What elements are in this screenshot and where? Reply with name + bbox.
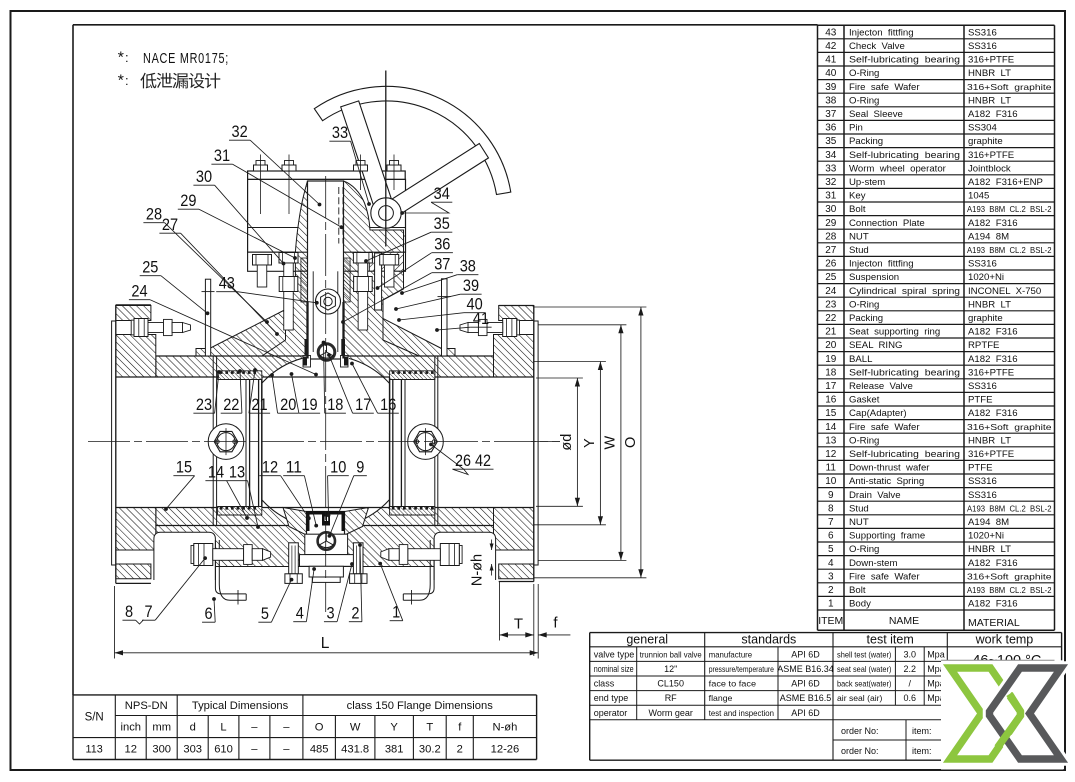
svg-text:BALL: BALL bbox=[849, 354, 873, 365]
svg-text:inch: inch bbox=[120, 722, 141, 734]
svg-text:30.2: 30.2 bbox=[419, 744, 441, 756]
svg-text:API 6D: API 6D bbox=[791, 679, 820, 689]
svg-text:316+PTFE: 316+PTFE bbox=[968, 55, 1014, 66]
drain boss shoulder wedge right bbox=[345, 508, 369, 535]
svg-text:21: 21 bbox=[251, 396, 267, 414]
svg-text:standards: standards bbox=[741, 632, 796, 646]
drain plate bbox=[300, 555, 355, 567]
svg-text:32: 32 bbox=[232, 123, 248, 141]
drain boss pocket bbox=[307, 512, 345, 535]
svg-text:HNBR LT: HNBR LT bbox=[968, 299, 1011, 310]
svg-text:ASME B16.34: ASME B16.34 bbox=[777, 664, 834, 674]
chinese note text bbox=[140, 73, 156, 89]
bore bottom line bbox=[116, 507, 534, 509]
svg-text:Packing: Packing bbox=[849, 136, 883, 147]
svg-text:MATERIAL: MATERIAL bbox=[968, 617, 1020, 629]
centerline extension right bbox=[531, 441, 560, 443]
svg-text:14: 14 bbox=[208, 464, 224, 482]
bell base through band bbox=[295, 252, 360, 271]
svg-text::: : bbox=[125, 73, 129, 88]
flange bolt bbox=[191, 545, 194, 563]
svg-text:42: 42 bbox=[825, 41, 837, 52]
svg-text:SS316: SS316 bbox=[968, 476, 997, 487]
svg-text:6: 6 bbox=[828, 531, 834, 542]
horizontal centerline bbox=[88, 441, 560, 443]
svg-text:23: 23 bbox=[196, 396, 212, 414]
svg-text:18: 18 bbox=[825, 367, 837, 378]
svg-text:7: 7 bbox=[828, 517, 834, 528]
svg-text:14: 14 bbox=[825, 422, 837, 433]
svg-text:O-Ring: O-Ring bbox=[849, 68, 879, 79]
logo green over-cross detail bbox=[998, 694, 1021, 748]
svg-text:Self-lubricating bearing: Self-lubricating bearing bbox=[849, 150, 960, 161]
bonnet neck left bbox=[262, 271, 308, 356]
svg-text:25: 25 bbox=[825, 272, 837, 283]
svg-text:pressure/temperature: pressure/temperature bbox=[709, 664, 775, 674]
handwheel rim of worm gear operator bbox=[314, 86, 511, 194]
svg-text:Bolt: Bolt bbox=[849, 204, 866, 215]
drain valve 9 circle bbox=[318, 532, 335, 549]
svg-text:Stud: Stud bbox=[849, 245, 869, 256]
svg-text:graphite: graphite bbox=[968, 136, 1003, 147]
hub circle of worm wheel bbox=[371, 198, 401, 228]
svg-text:SS316: SS316 bbox=[968, 27, 997, 38]
svg-text:Seal Sleeve: Seal Sleeve bbox=[849, 109, 903, 120]
svg-text:Pin: Pin bbox=[849, 123, 863, 134]
svg-text:37: 37 bbox=[434, 256, 450, 274]
right upper seat pocket serrations bbox=[390, 371, 435, 380]
svg-text:Suspension: Suspension bbox=[849, 272, 899, 283]
flange bolt bbox=[459, 545, 462, 563]
svg-text:A194 8M: A194 8M bbox=[968, 517, 1009, 528]
svg-text:26 42: 26 42 bbox=[455, 452, 491, 470]
svg-text:Fire safe Wafer: Fire safe Wafer bbox=[849, 422, 920, 433]
svg-text:SS316: SS316 bbox=[968, 41, 997, 52]
svg-text:8: 8 bbox=[125, 603, 133, 621]
svg-text:item:: item: bbox=[912, 726, 932, 736]
svg-text:Up-stem: Up-stem bbox=[849, 177, 885, 188]
pin 36 bbox=[375, 253, 382, 310]
drain boss shoulder wedge left bbox=[283, 508, 307, 535]
svg-text:N-øh: N-øh bbox=[470, 554, 486, 586]
svg-text:W: W bbox=[350, 722, 361, 734]
svg-text:12: 12 bbox=[262, 459, 278, 477]
svg-text:API 6D: API 6D bbox=[791, 649, 820, 659]
svg-text:2: 2 bbox=[351, 605, 359, 623]
plate bolts on gear housing top bbox=[254, 165, 268, 171]
svg-text:36: 36 bbox=[825, 123, 837, 134]
body upper wall section bbox=[156, 356, 494, 377]
injection fitting 43 circle bbox=[316, 289, 341, 314]
svg-text:31: 31 bbox=[214, 147, 230, 165]
svg-text:HNBR LT: HNBR LT bbox=[968, 68, 1011, 79]
svg-text:A194 8M: A194 8M bbox=[968, 231, 1009, 242]
svg-text:9: 9 bbox=[356, 459, 364, 477]
svg-text:A182 F316+ENP: A182 F316+ENP bbox=[968, 177, 1043, 188]
svg-text:d: d bbox=[190, 722, 196, 734]
svg-text:–: – bbox=[251, 722, 258, 734]
svg-text:29: 29 bbox=[825, 218, 837, 229]
logo green chevron bbox=[950, 668, 1021, 759]
svg-text:SS304: SS304 bbox=[968, 123, 997, 134]
svg-text:Release Valve: Release Valve bbox=[849, 381, 913, 392]
svg-text:25: 25 bbox=[142, 259, 158, 277]
svg-text:18: 18 bbox=[327, 396, 343, 414]
dimension N-oh bbox=[491, 540, 493, 551]
svg-text:A182 F316: A182 F316 bbox=[968, 354, 1018, 365]
svg-text:operator: operator bbox=[594, 708, 628, 718]
svg-text:A193 B8M CL.2 BSL-2: A193 B8M CL.2 BSL-2 bbox=[967, 504, 1052, 513]
svg-text:Key: Key bbox=[849, 191, 866, 202]
svg-text:17: 17 bbox=[355, 396, 371, 414]
svg-text:19: 19 bbox=[825, 354, 837, 365]
svg-text:face to face: face to face bbox=[709, 679, 757, 689]
handwheel spoke lower-right bbox=[392, 144, 489, 214]
svg-text:41: 41 bbox=[473, 310, 489, 328]
svg-text:RF: RF bbox=[665, 693, 677, 703]
svg-text:Injecton fittfing: Injecton fittfing bbox=[849, 27, 914, 38]
svg-text:RPTFE: RPTFE bbox=[968, 340, 999, 351]
svg-text:SS316: SS316 bbox=[968, 259, 997, 270]
bore top line bbox=[116, 376, 534, 378]
suspension plate left (25) bbox=[205, 279, 210, 356]
svg-text:ASME B16.5: ASME B16.5 bbox=[780, 693, 832, 703]
left flange lower blocks bbox=[116, 508, 156, 551]
svg-text:Self-lubricating bearing: Self-lubricating bearing bbox=[849, 55, 960, 66]
svg-text:12": 12" bbox=[664, 664, 677, 674]
svg-text:316+Soft graphite: 316+Soft graphite bbox=[967, 423, 1052, 432]
svg-text:Seat supporting ring: Seat supporting ring bbox=[849, 327, 940, 338]
svg-text:Check Valve: Check Valve bbox=[849, 41, 905, 52]
bonnet neck right bbox=[344, 271, 420, 356]
logo gray chevron bbox=[990, 668, 1062, 759]
svg-text:35: 35 bbox=[825, 136, 837, 147]
svg-text:O-Ring: O-Ring bbox=[849, 95, 879, 106]
svg-text:A193 B8M CL.2 BSL-2: A193 B8M CL.2 BSL-2 bbox=[967, 205, 1052, 214]
svg-text:NAME: NAME bbox=[889, 615, 919, 627]
supporting frame strap right bbox=[403, 540, 434, 594]
svg-text:T: T bbox=[514, 616, 523, 633]
svg-text:Worm wheel operator: Worm wheel operator bbox=[849, 163, 947, 174]
svg-text:ød: ød bbox=[559, 434, 575, 451]
svg-text:API 6D: API 6D bbox=[791, 708, 820, 718]
svg-text:37: 37 bbox=[825, 109, 837, 120]
svg-text:381: 381 bbox=[385, 744, 404, 756]
connection plate on housing top bbox=[248, 171, 406, 179]
svg-text:22: 22 bbox=[223, 396, 239, 414]
stem key dashed lines bbox=[338, 187, 340, 244]
right seat ring lines bbox=[389, 377, 391, 508]
ball white region bbox=[262, 355, 390, 528]
svg-text:W: W bbox=[603, 435, 619, 449]
worm shaft hidden line bbox=[390, 235, 406, 237]
svg-text:Down-stem: Down-stem bbox=[849, 558, 898, 569]
svg-text:Packing: Packing bbox=[849, 313, 883, 324]
svg-text:SS316: SS316 bbox=[968, 490, 997, 501]
left flange face and raised face lip bbox=[112, 321, 116, 565]
svg-text:34: 34 bbox=[825, 150, 837, 161]
ball surface arcs bbox=[262, 358, 303, 383]
bonnet skirt right bbox=[366, 310, 442, 357]
svg-text:4: 4 bbox=[828, 558, 834, 569]
svg-text:30: 30 bbox=[825, 204, 837, 215]
svg-text:13: 13 bbox=[825, 435, 837, 446]
svg-text:24: 24 bbox=[131, 283, 147, 301]
svg-text:485: 485 bbox=[310, 744, 329, 756]
svg-text:1: 1 bbox=[828, 599, 834, 610]
svg-text:–: – bbox=[251, 744, 258, 756]
svg-text:11: 11 bbox=[286, 459, 302, 477]
vertical centerline bbox=[325, 176, 327, 612]
svg-text:19: 19 bbox=[301, 396, 317, 414]
supporting frame plate left (6) bbox=[154, 532, 216, 580]
svg-text:item:: item: bbox=[912, 746, 932, 756]
svg-text:5: 5 bbox=[828, 544, 834, 555]
inner drawing frame bbox=[73, 24, 818, 26]
svg-text:graphite: graphite bbox=[968, 313, 1003, 324]
left seat ring lines bbox=[245, 377, 247, 508]
svg-text:300: 300 bbox=[152, 744, 171, 756]
svg-text:manufacture: manufacture bbox=[709, 649, 753, 659]
band hatched right part bbox=[369, 252, 403, 271]
svg-text:13: 13 bbox=[229, 464, 245, 482]
svg-text:HNBR LT: HNBR LT bbox=[968, 544, 1011, 555]
svg-text:Injecton fittfing: Injecton fittfing bbox=[849, 259, 914, 270]
svg-text:Supporting frame: Supporting frame bbox=[849, 531, 925, 542]
connection band under housing bbox=[248, 252, 406, 271]
svg-text:16: 16 bbox=[825, 395, 837, 406]
svg-text:NPS-DN: NPS-DN bbox=[125, 700, 168, 712]
svg-text:23: 23 bbox=[825, 299, 837, 310]
dimension W bbox=[538, 324, 626, 326]
svg-text:22: 22 bbox=[825, 313, 837, 324]
svg-text:0.6: 0.6 bbox=[904, 693, 917, 703]
svg-text:3: 3 bbox=[326, 605, 334, 623]
flange bolt bbox=[517, 320, 520, 335]
svg-text:610: 610 bbox=[214, 744, 233, 756]
svg-text:40: 40 bbox=[825, 68, 837, 79]
svg-text:work temp: work temp bbox=[975, 632, 1034, 646]
svg-text:Stud: Stud bbox=[849, 503, 869, 514]
svg-text:303: 303 bbox=[183, 744, 202, 756]
svg-text:28: 28 bbox=[825, 231, 837, 242]
svg-text:10: 10 bbox=[825, 476, 837, 487]
bonnet bell left section bbox=[295, 181, 307, 252]
supporting frame strap left bbox=[215, 540, 246, 594]
svg-text:O-Ring: O-Ring bbox=[849, 435, 879, 446]
svg-text:41: 41 bbox=[825, 55, 837, 66]
housing internal split line bbox=[248, 227, 406, 229]
svg-text:class 150 Flange Dimensions: class 150 Flange Dimensions bbox=[347, 700, 494, 712]
parts list table (BOM) bbox=[817, 25, 819, 630]
svg-text:9: 9 bbox=[828, 490, 834, 501]
bolt 30 left bbox=[253, 255, 272, 266]
svg-text:SS316: SS316 bbox=[968, 381, 997, 392]
bolt right mirror bbox=[380, 255, 399, 266]
svg-text:Drain Valve: Drain Valve bbox=[849, 490, 901, 501]
svg-text:4: 4 bbox=[296, 605, 304, 623]
svg-text:CL150: CL150 bbox=[657, 679, 684, 689]
svg-text:mm: mm bbox=[152, 722, 171, 734]
svg-text:Worm gear: Worm gear bbox=[649, 708, 693, 718]
dimension ød bbox=[536, 377, 583, 379]
svg-text:Body: Body bbox=[849, 599, 871, 610]
svg-text:Cylindrical spiral spring: Cylindrical spiral spring bbox=[849, 286, 960, 297]
stem gland bore lines bbox=[312, 271, 314, 352]
svg-text:A182 F316: A182 F316 bbox=[968, 408, 1018, 419]
svg-text:O: O bbox=[315, 722, 324, 734]
svg-text:Anti-static Spring: Anti-static Spring bbox=[849, 476, 924, 487]
svg-text:24: 24 bbox=[825, 286, 837, 297]
svg-text:21: 21 bbox=[825, 327, 837, 338]
svg-text:31: 31 bbox=[825, 191, 837, 202]
svg-text:test and inspection: test and inspection bbox=[709, 708, 775, 718]
svg-text:38: 38 bbox=[825, 95, 837, 106]
title block info table bbox=[590, 632, 1062, 634]
svg-text:PTFE: PTFE bbox=[968, 395, 993, 406]
right flange face and raised face lip bbox=[534, 321, 538, 565]
gear housing box bbox=[248, 179, 406, 252]
down-stem cap steps bbox=[309, 566, 343, 577]
svg-text:431.8: 431.8 bbox=[341, 744, 369, 756]
svg-text:20: 20 bbox=[280, 396, 296, 414]
svg-text:class: class bbox=[594, 679, 615, 689]
svg-text:6: 6 bbox=[205, 605, 213, 623]
release valve 17 circle bbox=[318, 344, 335, 361]
packing strips beside stem bbox=[301, 258, 308, 302]
svg-text:113: 113 bbox=[86, 744, 103, 756]
logo white box bbox=[941, 660, 1064, 769]
svg-text:A182 F316: A182 F316 bbox=[968, 218, 1018, 229]
body outer top line bbox=[156, 355, 494, 357]
svg-text:Self-lubricating bearing: Self-lubricating bearing bbox=[849, 367, 960, 378]
svg-text:30: 30 bbox=[196, 168, 212, 186]
right closure joint lines bbox=[434, 356, 436, 526]
svg-text:PTFE: PTFE bbox=[968, 463, 993, 474]
svg-text:seat seal (water): seat seal (water) bbox=[837, 664, 892, 674]
handwheel spoke upper-left bbox=[341, 101, 392, 206]
svg-text:Y: Y bbox=[582, 438, 598, 448]
supporting frame plate right bbox=[434, 532, 496, 580]
svg-text:2.2: 2.2 bbox=[904, 664, 917, 674]
svg-text:27: 27 bbox=[825, 245, 837, 256]
svg-text:Fire safe Wafer: Fire safe Wafer bbox=[849, 571, 920, 582]
svg-text:HNBR LT: HNBR LT bbox=[968, 435, 1011, 446]
svg-text:3.0: 3.0 bbox=[904, 649, 917, 659]
svg-text:air seal (air): air seal (air) bbox=[837, 693, 883, 703]
svg-text:order No:: order No: bbox=[841, 726, 879, 736]
dimension T bbox=[499, 582, 501, 641]
stud with nut right mirror bbox=[353, 253, 372, 264]
flange dimensions table bbox=[73, 694, 537, 696]
svg-text:316+PTFE: 316+PTFE bbox=[968, 449, 1014, 460]
svg-text:L: L bbox=[220, 722, 226, 734]
svg-text:316+PTFE: 316+PTFE bbox=[968, 367, 1014, 378]
svg-text:O: O bbox=[623, 437, 639, 448]
svg-text:15: 15 bbox=[176, 459, 192, 477]
svg-text:20: 20 bbox=[825, 340, 837, 351]
svg-text:2: 2 bbox=[828, 585, 834, 596]
svg-text:17: 17 bbox=[825, 381, 837, 392]
svg-text:34: 34 bbox=[434, 185, 450, 203]
dimension O bbox=[534, 306, 646, 308]
svg-text:1020+Ni: 1020+Ni bbox=[968, 272, 1004, 283]
svg-text:Bolt: Bolt bbox=[849, 585, 866, 596]
vertical stud 2-5 left bbox=[289, 543, 299, 574]
svg-text:trunnion ball valve: trunnion ball valve bbox=[640, 650, 702, 659]
svg-text:A182 F316: A182 F316 bbox=[968, 109, 1018, 120]
right lower seat pocket serrations bbox=[390, 507, 435, 516]
dimension f bbox=[538, 634, 570, 636]
suspension plate right bbox=[442, 279, 448, 356]
bonnet skirt left bbox=[210, 310, 286, 357]
svg-text::: : bbox=[125, 50, 129, 65]
svg-text:2: 2 bbox=[457, 744, 463, 756]
svg-text:S/N: S/N bbox=[85, 711, 104, 723]
svg-text:–: – bbox=[283, 744, 290, 756]
drain middle box bbox=[305, 534, 348, 554]
svg-text:10: 10 bbox=[330, 459, 346, 477]
svg-text:Mpa: Mpa bbox=[927, 649, 945, 659]
svg-text:ITEM: ITEM bbox=[818, 615, 843, 627]
svg-text:–: – bbox=[283, 722, 290, 734]
svg-text:Gasket: Gasket bbox=[849, 395, 880, 406]
svg-text:39: 39 bbox=[825, 82, 837, 93]
svg-text:back seat(water): back seat(water) bbox=[837, 679, 892, 689]
svg-text:316+PTFE: 316+PTFE bbox=[968, 150, 1014, 161]
svg-text:1045: 1045 bbox=[968, 191, 989, 202]
svg-text:A193 B8M CL.2 BSL-2: A193 B8M CL.2 BSL-2 bbox=[967, 246, 1052, 255]
svg-text:Connection Plate: Connection Plate bbox=[849, 218, 925, 229]
svg-text:7: 7 bbox=[145, 603, 153, 621]
svg-text:316+Soft graphite: 316+Soft graphite bbox=[967, 83, 1052, 92]
flange bolt bbox=[131, 320, 134, 335]
body outer bottom line bbox=[156, 525, 494, 527]
svg-text:15: 15 bbox=[825, 408, 837, 419]
svg-text:test item: test item bbox=[867, 632, 914, 646]
svg-text:A182 F316: A182 F316 bbox=[968, 327, 1018, 338]
svg-text:33: 33 bbox=[332, 124, 348, 142]
svg-text:A182 F316: A182 F316 bbox=[968, 558, 1018, 569]
svg-text:A193 B8M CL.2 BSL-2: A193 B8M CL.2 BSL-2 bbox=[967, 586, 1052, 595]
svg-text:Typical Dimensions: Typical Dimensions bbox=[192, 700, 289, 712]
svg-text:1020+Ni: 1020+Ni bbox=[968, 531, 1004, 542]
bottom slab lower edge bbox=[156, 566, 494, 568]
svg-text:12: 12 bbox=[825, 449, 837, 460]
svg-text:O-Ring: O-Ring bbox=[849, 544, 879, 555]
svg-text:Self-lubricating bearing: Self-lubricating bearing bbox=[849, 449, 960, 460]
svg-text:Cap(Adapter): Cap(Adapter) bbox=[849, 408, 907, 419]
seal sleeve black bars beside stem bottom bbox=[305, 339, 309, 356]
worm shaft centerline bbox=[385, 71, 387, 247]
svg-text:36: 36 bbox=[434, 236, 450, 254]
svg-text:8: 8 bbox=[828, 503, 834, 514]
svg-text:Y: Y bbox=[390, 722, 398, 734]
left closure joint lines bbox=[212, 356, 214, 526]
svg-text:33: 33 bbox=[825, 163, 837, 174]
svg-text:43: 43 bbox=[825, 27, 837, 38]
svg-text:5: 5 bbox=[261, 605, 269, 623]
svg-text:29: 29 bbox=[180, 192, 196, 210]
left flange upper blocks bbox=[116, 306, 151, 321]
svg-text:shell test (water): shell test (water) bbox=[837, 649, 892, 659]
svg-text:O-Ring: O-Ring bbox=[849, 299, 879, 310]
up-stem bbox=[308, 181, 344, 359]
stud 27 with nut 28 left bbox=[279, 253, 298, 264]
svg-text:27: 27 bbox=[162, 216, 178, 234]
svg-text:Jointblock: Jointblock bbox=[968, 163, 1011, 174]
svg-text:end type: end type bbox=[594, 693, 629, 703]
